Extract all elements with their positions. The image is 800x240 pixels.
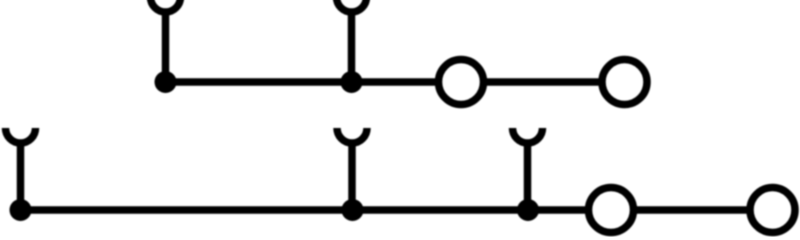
wire: upper bus (left segment) [166, 78, 439, 86]
terminal circle: upper level, left [439, 60, 484, 105]
junction: lower bus at contact 3 [517, 199, 539, 221]
junction: upper bus at contact 1 [155, 71, 177, 93]
wire: lower bus (left segment) [21, 206, 587, 214]
wire: stem of lower contact 3 [524, 142, 532, 208]
wire: stem of upper contact 1 [162, 11, 170, 80]
terminal circle: lower level, left [589, 188, 634, 233]
contact fork: lower level, point 3 [513, 128, 543, 143]
junction: lower bus at contact 1 [10, 199, 32, 221]
terminal circle: upper level, right [602, 60, 647, 105]
contact fork: lower level, point 1 [6, 128, 36, 143]
contact fork: upper level, point 1 [151, 0, 181, 12]
wire: lower bus between circles [633, 206, 750, 214]
wire: stem of lower contact 2 [348, 142, 356, 208]
contact fork: upper level, point 2 [337, 0, 367, 12]
wire: upper bus between circles [483, 78, 603, 86]
wire: stem of lower contact 1 [17, 142, 25, 208]
junction: lower bus at contact 2 [342, 199, 364, 221]
terminal circle: lower level, right [750, 188, 795, 233]
contact fork: lower level, point 2 [337, 128, 367, 143]
junction: upper bus at contact 2 [341, 71, 363, 93]
wire: stem of upper contact 2 [348, 11, 356, 80]
